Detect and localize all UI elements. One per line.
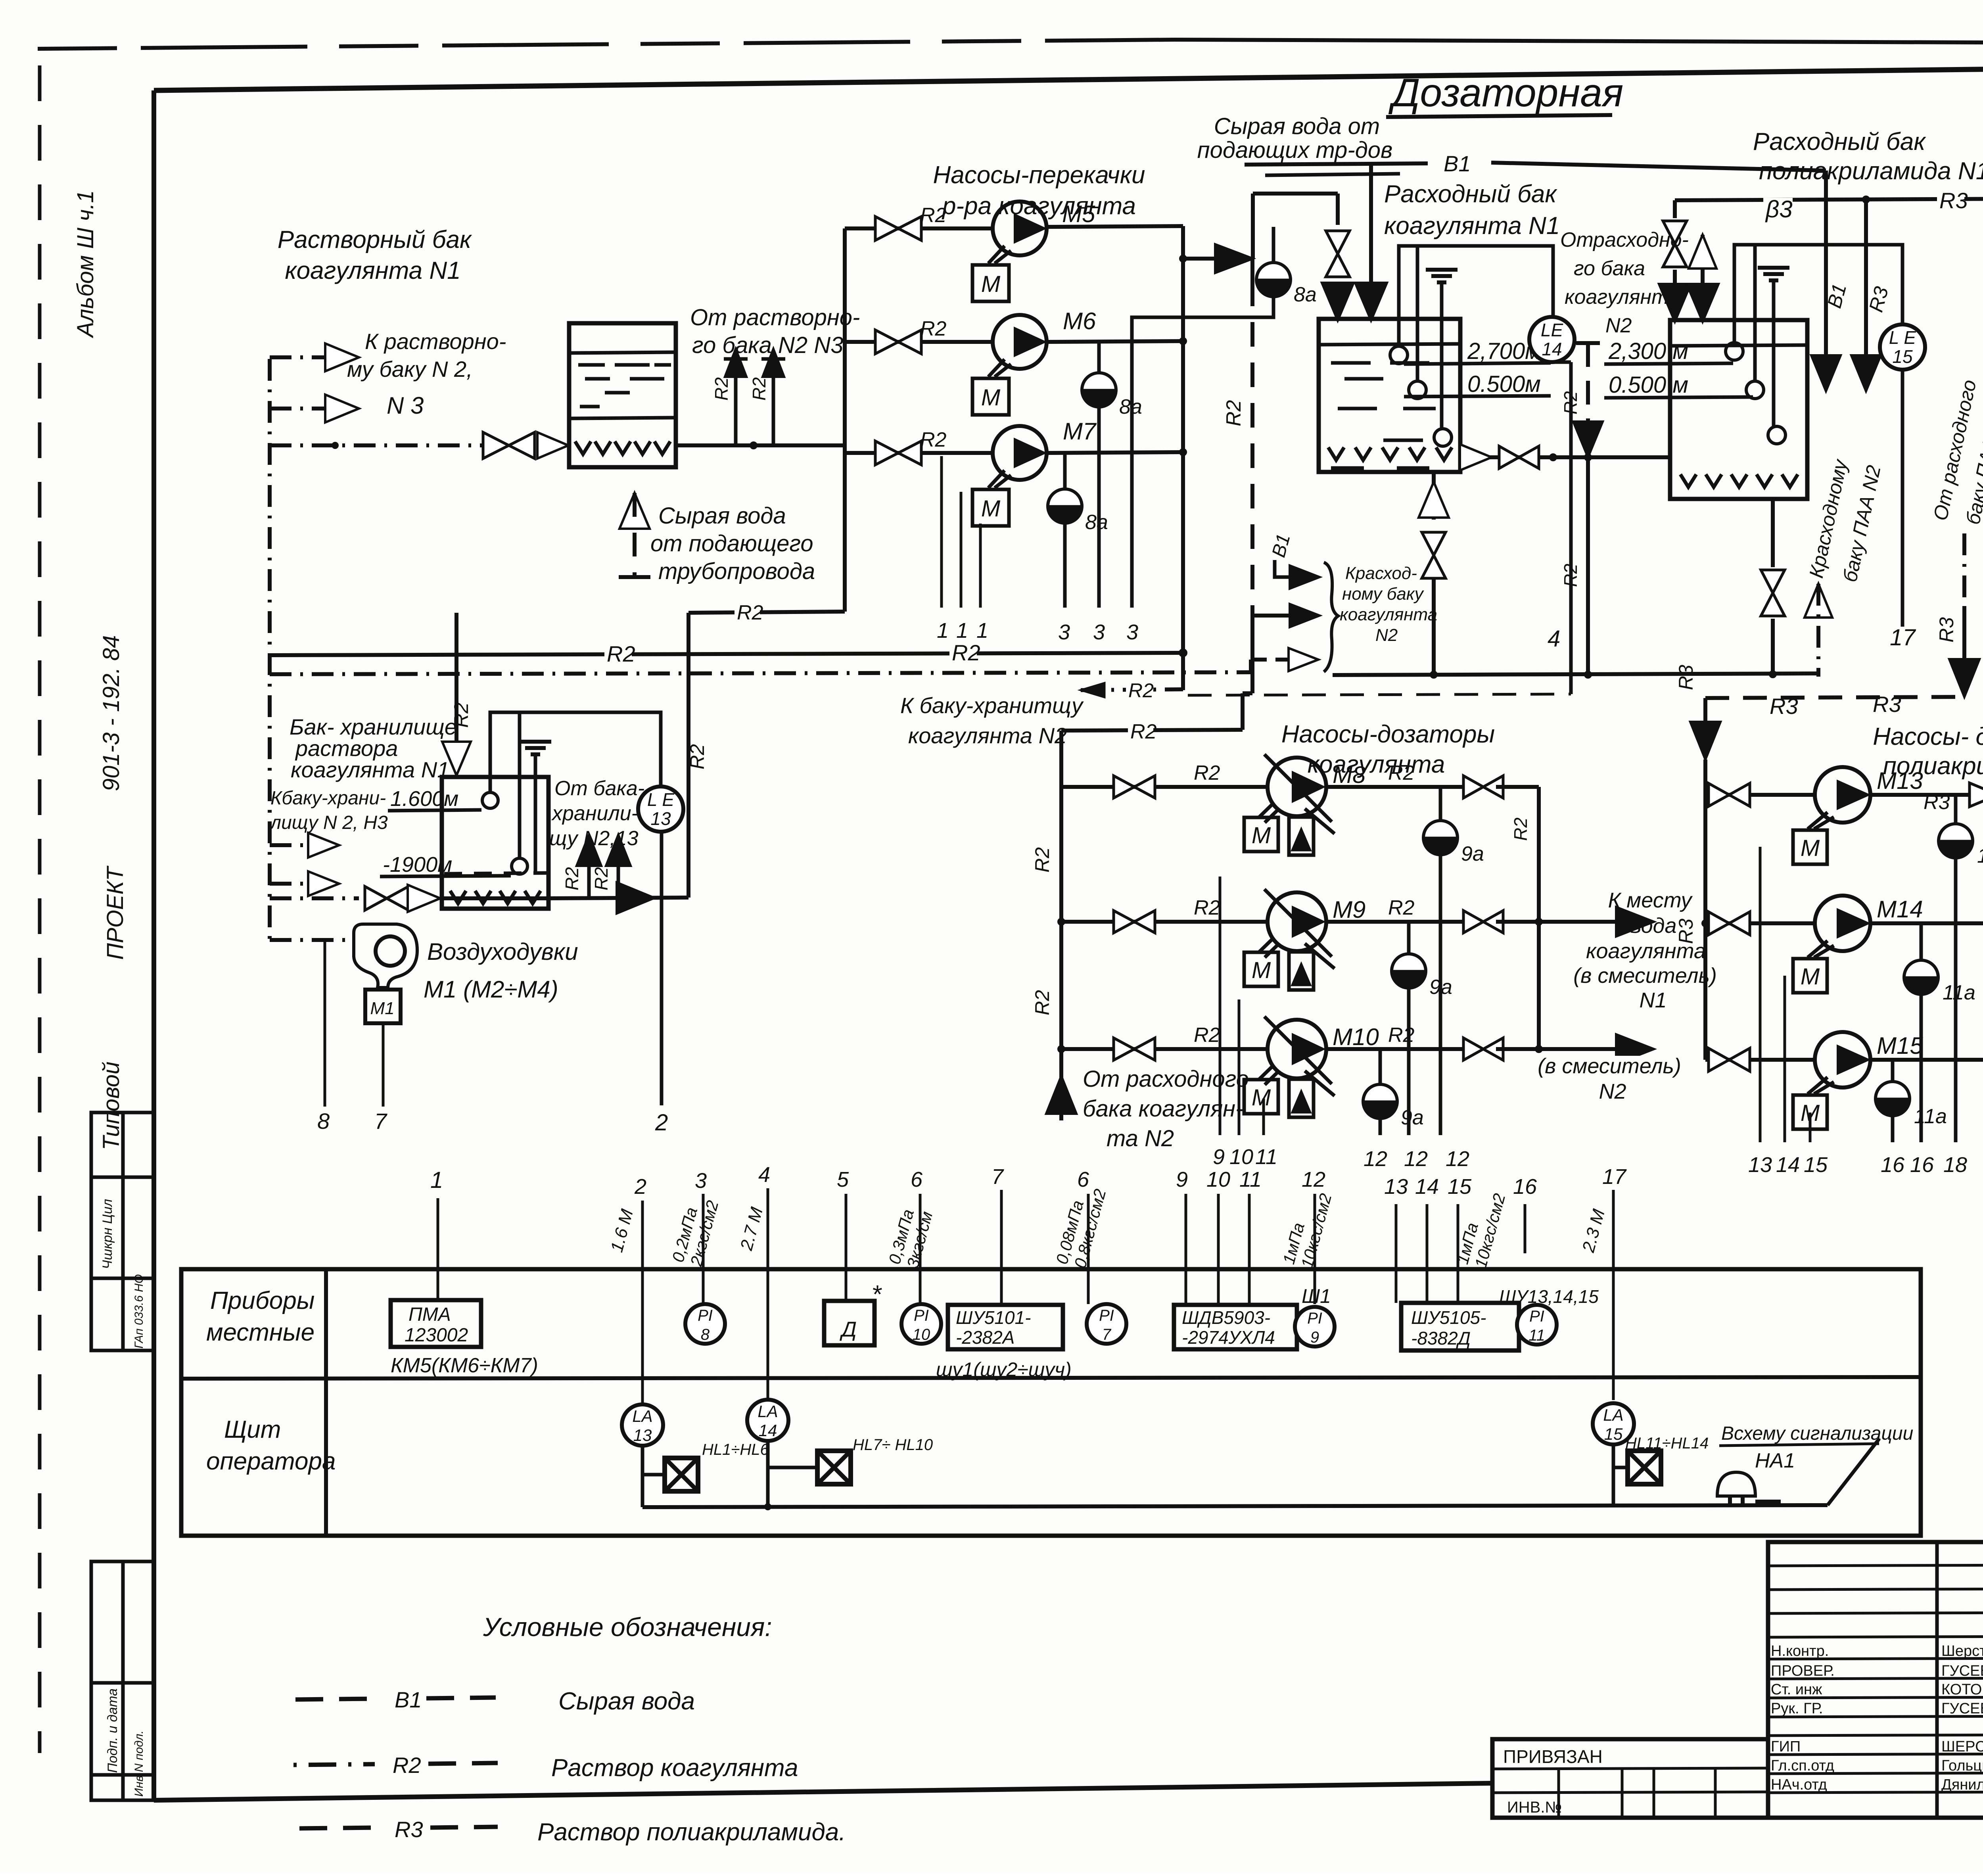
dosing pump М8 stroke adjust arrow (1305, 809, 1335, 834)
svg-text:коагулянта N1: коагулянта N1 (1384, 212, 1560, 240)
svg-text:Сырая вода от: Сырая вода от (1214, 113, 1380, 139)
underline alarm scheme (1719, 1444, 1879, 1446)
lamp box HL1-HL6 (665, 1458, 698, 1491)
svg-text:11: 11 (1255, 1145, 1277, 1169)
legend B1 sample line right (426, 1698, 496, 1698)
wire row3 to mixer N2 arrow (1539, 1047, 1622, 1051)
left margin stamp box lower (91, 1561, 154, 1800)
open arrow into storage tank bottom line (408, 885, 440, 912)
instrument table row divider (181, 1377, 1921, 1379)
svg-text:Гл.сп.отд: Гл.сп.отд (1771, 1757, 1834, 1774)
lamp box HL7-HL10 (817, 1451, 851, 1484)
junction dot at LE14 line (1550, 454, 1557, 461)
svg-text:М6: М6 (1063, 308, 1096, 334)
tick on R2 riser 2 (761, 357, 785, 361)
valve V8 vertical on beta3 left end (1673, 200, 1677, 218)
storage tank V row (450, 891, 466, 903)
svg-text:От растворно-: От растворно- (690, 305, 860, 330)
diagonal leader to alarm text (1828, 1439, 1879, 1505)
probe wires storage to LE13 (490, 712, 661, 792)
wire outlet row М8 (1326, 785, 1471, 789)
pump М15 motor box (1793, 1095, 1827, 1129)
sensor 9a-3 (1379, 1049, 1382, 1084)
svg-text:R2: R2 (1031, 847, 1053, 873)
wire tank N1 drain to right (1460, 455, 1553, 459)
svg-text:11а: 11а (1943, 981, 1975, 1004)
arrow into tank N1 left inlet (1322, 283, 1354, 320)
svg-text:R2: R2 (591, 867, 612, 890)
wire R2 down feed between tanks (1586, 343, 1590, 434)
dosing pump М9 plunger box (1289, 952, 1314, 990)
svg-text:М14: М14 (1877, 896, 1923, 923)
wire signal bus y3800 (642, 1505, 1828, 1507)
wire suction row М14 (1705, 921, 1816, 925)
svg-text:ГУСЕВА: ГУСЕВА (1941, 1663, 1983, 1679)
label v smesitel N2 coag (1523, 1056, 1695, 1078)
dosing pump М8 motor box (1244, 817, 1278, 852)
instrument LE13 level transmitter (638, 786, 683, 832)
junction dot M6 outlet (1179, 338, 1187, 345)
svg-text:Н.контр.: Н.контр. (1771, 1643, 1829, 1659)
local instrument PI-9 (1295, 1307, 1335, 1347)
wire M6 outlet to bus (1047, 341, 1183, 342)
wire LA14 to HL box (766, 1441, 770, 1507)
svg-text:16: 16 (1881, 1153, 1905, 1177)
dosing pump М8 (1268, 758, 1326, 816)
arrow open up into tank N1 bottom (1419, 482, 1449, 518)
wire tank N2 drain to trunk (1771, 619, 1775, 677)
wire M7 outlet to bus (1047, 452, 1183, 453)
svg-text:R2: R2 (1560, 391, 1581, 414)
svg-text:та N2: та N2 (1107, 1126, 1174, 1151)
valve V4 vertical above tank N1 (1326, 231, 1350, 254)
leaders 13 14 15 wires to ShU5105 box (1395, 1204, 1398, 1303)
svg-text:Гольцман: Гольцман (1941, 1757, 1983, 1774)
dosing pump М10 plunger box (1289, 1079, 1314, 1117)
svg-text:10: 10 (1206, 1168, 1230, 1191)
net label R2 L1 a (604, 643, 632, 667)
svg-text:8а: 8а (1085, 511, 1108, 534)
leader 5 wire to D box (845, 1194, 848, 1301)
svg-text:-1900м: -1900м (383, 853, 452, 877)
wire riser x3158 dashed section (1250, 282, 1254, 611)
title underline (1386, 115, 1612, 117)
name table column divider 1 (1935, 1542, 1939, 1818)
svg-text:От расходного: От расходного (1083, 1066, 1249, 1092)
local instrument box ShU5105-8382D (1401, 1303, 1519, 1350)
wire outlet row М9 (1326, 920, 1471, 924)
wire stub arrow to storage N3 (270, 882, 315, 886)
local instrument box ShDV5903-2974UHL4 (1174, 1305, 1297, 1349)
wire B1 stub elbow (1275, 560, 1298, 577)
open arrow up to PAA tank N2 (1805, 584, 1832, 618)
svg-text:13: 13 (1748, 1153, 1772, 1177)
svg-text:M: M (1801, 964, 1820, 990)
R2 tap arrow 1 under Ot baka label (587, 855, 591, 898)
svg-text:R2: R2 (1128, 679, 1154, 702)
wire riser drop to manifold feed level (1241, 693, 1245, 730)
svg-text:К баку-хранитщу: К баку-хранитщу (900, 693, 1084, 718)
junction dot drain/feed (1584, 454, 1592, 461)
wire 11a-3 stem (1891, 1116, 1895, 1142)
svg-text:Сырая вода: Сырая вода (558, 1688, 695, 1715)
wire coag dosing manifold vertical x2676 (1059, 731, 1063, 1076)
junction dot M7 outlet (1179, 449, 1187, 456)
svg-text:R2: R2 (1130, 720, 1157, 743)
svg-text:Дянилов: Дянилов (1941, 1776, 1983, 1793)
svg-text:R3: R3 (1924, 791, 1950, 814)
open arrow to storage N3 (308, 871, 339, 896)
wire suction manifold vertical x2130 (843, 228, 847, 612)
blower M1 scroll casing (354, 924, 417, 988)
valve on suction row М8 (1114, 776, 1134, 798)
svg-text:5: 5 (837, 1168, 849, 1191)
tee on riser to brace arrow2 (1252, 614, 1296, 618)
svg-text:2,300 м: 2,300 м (1608, 338, 1688, 364)
svg-text:7: 7 (991, 1165, 1004, 1189)
pump M6 motor box (972, 378, 1009, 415)
valve outlet row М10 (1463, 1038, 1483, 1060)
wire outlet to bus М8 (1496, 785, 1539, 789)
svg-text:12: 12 (1302, 1168, 1325, 1191)
sensor 8a-2 level device (1097, 341, 1101, 373)
svg-text:M: M (1252, 1085, 1271, 1111)
arrow open into dissolve tank (537, 432, 568, 458)
svg-text:Подп. и дата: Подп. и дата (105, 1688, 120, 1773)
pump M7 (993, 426, 1047, 480)
leader lines 9 10 11 from M8-M10 motors (1219, 877, 1222, 1135)
svg-text:Щит: Щит (224, 1416, 281, 1443)
svg-text:N1: N1 (1639, 988, 1667, 1012)
wire dash-dot trunk L1b (270, 672, 1251, 674)
dosing pump М9 motor box (1244, 952, 1278, 986)
svg-text:9: 9 (1176, 1168, 1188, 1191)
svg-text:15: 15 (1448, 1175, 1472, 1199)
dissolve tank inner line (569, 418, 676, 418)
svg-text:R2: R2 (920, 317, 947, 340)
svg-text:R2: R2 (1194, 1024, 1220, 1047)
svg-text:2: 2 (634, 1175, 646, 1199)
float sensor circle 1 tank N1 (1390, 346, 1408, 364)
wire M7 suction row (845, 451, 993, 455)
svg-text:В1: В1 (395, 1687, 422, 1712)
svg-text:К растворно-: К растворно- (365, 329, 506, 354)
instrument LA15 alarm lamp circle (1593, 1403, 1634, 1444)
svg-text:ШЕРСТЯКОВА: ШЕРСТЯКОВА (1941, 1738, 1983, 1755)
sensor 11a-3 (1891, 1060, 1895, 1082)
wire from dissolve tank right at y1123 junction (750, 442, 757, 449)
wire M5 outlet to bus1 (1047, 226, 1183, 227)
probe wire tank N2 to LE15 (1734, 245, 1902, 343)
svg-text:M: M (981, 496, 1001, 522)
svg-text:R2: R2 (952, 640, 980, 665)
name table box (1768, 1542, 1983, 1818)
valve outlet row М9 (1463, 911, 1483, 933)
svg-text:коагулянта N2: коагулянта N2 (908, 723, 1067, 748)
svg-text:К месту: К месту (1608, 888, 1693, 912)
svg-text:10: 10 (1229, 1145, 1253, 1169)
wire riser elbow top horizontal (1253, 192, 1338, 196)
probe line ground into tank N2 (1772, 280, 1776, 426)
svg-text:LE: LE (1541, 320, 1564, 340)
level underline -1900 (380, 876, 511, 877)
svg-text:R3: R3 (1675, 665, 1697, 690)
svg-text:L E: L E (1889, 327, 1917, 348)
valve V2 on M6 suction (875, 330, 898, 354)
svg-text:R3: R3 (1770, 694, 1798, 719)
svg-text:Типовой: Типовой (98, 1062, 124, 1150)
svg-text:R2: R2 (1510, 817, 1531, 841)
wire riser elbow up x3159 (1251, 194, 1255, 259)
svg-text:17: 17 (1602, 1165, 1627, 1189)
svg-text:11: 11 (1528, 1327, 1545, 1344)
svg-text:(в смеситель): (в смеситель) (1538, 1054, 1681, 1078)
net label B1 on trunk (1441, 153, 1469, 176)
svg-text:14: 14 (1776, 1153, 1800, 1177)
svg-text:лищу N 2, Н3: лищу N 2, Н3 (269, 812, 388, 833)
dissolve tank N1 body (569, 323, 676, 467)
svg-text:-2382А: -2382А (956, 1327, 1015, 1348)
wire valve V8 down to arrow into tank N2 (1673, 270, 1677, 298)
svg-text:10: 10 (913, 1326, 930, 1343)
wire dashed signal line y1753 (1188, 694, 1571, 695)
arrow filled to consumption tank N2 brace top (1290, 566, 1319, 589)
junction dot bus at arrow row (1179, 255, 1187, 262)
local instrument box ShU5101-2382A (948, 1305, 1063, 1349)
local instrument PI-8 pressure gauge (685, 1304, 725, 1344)
wire R2 stub to storage tank N2 (1081, 689, 1183, 690)
svg-text:N2: N2 (1599, 1080, 1626, 1103)
blower M1 motor box (365, 990, 401, 1023)
blower M1 impeller circle (376, 936, 405, 966)
arrow filled to consumption tank N2 brace mid (1290, 604, 1319, 627)
wire row2 to mixer N1 arrow (1539, 920, 1622, 924)
open arrow up vent tank N2 (1689, 235, 1716, 269)
svg-text:Приборы: Приборы (210, 1287, 315, 1314)
tank consumption coagulant N1 body (1319, 319, 1460, 472)
wire outlet bus vertical x2983 (1181, 226, 1185, 690)
wire dash-dot to blower (270, 938, 354, 942)
svg-text:коагулянта: коагулянта (1340, 605, 1437, 624)
local instrument PI-10 (901, 1304, 941, 1344)
arrowhead left on storage N2 stub (1081, 683, 1105, 697)
leader 17 wire to LA15 (1612, 1190, 1615, 1400)
level underline 2.700 (1404, 363, 1551, 364)
svg-text:1: 1 (937, 619, 949, 643)
svg-text:R2: R2 (920, 428, 947, 451)
sensor 8a-1 level device (1272, 227, 1275, 263)
drawing frame top border (154, 63, 1983, 90)
wire outlet to bus М9 (1496, 920, 1539, 924)
leader 3 wire to PI8 (702, 1194, 705, 1304)
svg-text:Кбаку-храни-: Кбаку-храни- (270, 788, 386, 809)
svg-text:7: 7 (374, 1109, 387, 1134)
valve V5 with open arrow pair on feed line (483, 432, 509, 458)
arrow down on PAA manifold feed (1690, 722, 1720, 760)
svg-text:ГИП: ГИП (1771, 1738, 1801, 1755)
svg-text:11: 11 (1239, 1168, 1262, 1191)
drawing frame bottom border (154, 1783, 1494, 1800)
svg-text:LA: LA (632, 1407, 652, 1425)
wire tank N2 drain down (1771, 499, 1775, 567)
arrow R3 down at tank N2 (1851, 355, 1881, 391)
svg-text:М8: М8 (1333, 762, 1366, 788)
svg-text:LA: LA (758, 1402, 778, 1421)
wire B1 trunk drop at x3457 (1369, 164, 1373, 278)
R2 tap arrow 2 (617, 855, 620, 898)
open arrow to consumption tank N2 brace low (1289, 648, 1318, 671)
svg-text:PI: PI (1307, 1310, 1322, 1327)
svg-text:R3: R3 (395, 1817, 423, 1842)
svg-text:β3: β3 (1765, 196, 1793, 223)
junction dissolve feed (332, 442, 338, 449)
svg-text:16: 16 (1910, 1153, 1934, 1177)
pump М14 (1815, 896, 1870, 951)
wire drain continues to junction x3916 (1553, 455, 1671, 459)
open arrow down into storage tank (442, 742, 471, 775)
svg-text:1.600м: 1.600м (390, 787, 458, 811)
dosing pump М9 stroke adjust arrow (1305, 944, 1335, 969)
wire riser jog left (1243, 691, 1252, 695)
svg-text:Ш1: Ш1 (1302, 1285, 1331, 1307)
wire storage line right to riser with R2 taps (548, 898, 688, 898)
svg-text:R3: R3 (1935, 617, 1958, 643)
svg-text:му баку N 2,: му баку N 2, (347, 357, 473, 382)
svg-text:R2: R2 (1194, 762, 1220, 785)
svg-text:15: 15 (1804, 1153, 1828, 1177)
legend R2 sample line right (428, 1763, 498, 1764)
svg-text:шу1(шу2÷шуч): шу1(шу2÷шуч) (936, 1358, 1072, 1381)
horn HA1 base dash (1755, 1500, 1781, 1504)
svg-text:R2: R2 (920, 204, 947, 227)
svg-text:R2: R2 (686, 744, 708, 769)
level underline 0.500 tank N2 (1604, 397, 1753, 398)
storage tank dashed level line (444, 873, 547, 874)
svg-text:3: 3 (1058, 620, 1070, 644)
wire left header vertical x680 dash-dot (268, 359, 272, 940)
svg-text:6: 6 (911, 1168, 923, 1191)
net label R2 on storage N2 stub (1126, 681, 1151, 702)
svg-text:HL1÷HL6: HL1÷HL6 (702, 1441, 769, 1458)
leader 1 wire (437, 1198, 439, 1300)
privyazan grid lines (1492, 1768, 1768, 1769)
svg-text:ШУ13,14,15: ШУ13,14,15 (1499, 1286, 1599, 1307)
sensor 9a-2 (1407, 922, 1411, 954)
tank N1 top band (1319, 344, 1460, 345)
wire stub to rastvorny bak N2 arrow1 (270, 355, 326, 359)
svg-text:R2: R2 (1388, 896, 1415, 919)
wire 9a-2 stem down (1407, 988, 1411, 1135)
svg-text:0.500 м: 0.500 м (1609, 372, 1688, 398)
R2 riser arrow small 2 (772, 359, 775, 445)
svg-text:ШУ5101-: ШУ5101- (956, 1307, 1031, 1328)
svg-text:3: 3 (695, 1169, 707, 1193)
svg-text:р-ра коагулянта: р-ра коагулянта (942, 192, 1136, 220)
svg-text:12: 12 (1404, 1147, 1428, 1171)
alarm horn HA1 symbol (1717, 1472, 1755, 1496)
check valve M13 outlet (1970, 783, 1983, 807)
svg-text:ШУ5105-: ШУ5105- (1411, 1307, 1486, 1328)
svg-text:7: 7 (1102, 1326, 1112, 1343)
instrument table column divider (324, 1269, 328, 1536)
svg-text:Инв.N подл.: Инв.N подл. (132, 1730, 146, 1797)
open arrow to storage N2 (308, 833, 339, 857)
svg-text:ГАп 033.6 НО: ГАп 033.6 НО (132, 1274, 146, 1348)
probe wire 2 up (1416, 246, 1419, 381)
level underline 2.300 tank N2 (1604, 363, 1733, 364)
wire L3 corner down x4300 to PAA manifold (1703, 698, 1707, 730)
wire R2 manifold feed y1840 (1061, 730, 1243, 731)
svg-text:-8382Д: -8382Д (1411, 1328, 1471, 1348)
svg-text:Альбом Ш ч.1: Альбом Ш ч.1 (73, 190, 98, 338)
pump M6 (993, 315, 1047, 369)
svg-text:Рук. ГР.: Рук. ГР. (1771, 1700, 1823, 1717)
svg-text:коагулянта: коагулянта (1586, 939, 1706, 963)
wire storage main line y2265 (270, 896, 359, 900)
wire LE15 signal down to leader 17 (1901, 370, 1904, 627)
junction dot beta3/R3 at x4705 (1862, 196, 1870, 203)
dosing pump М10 (1268, 1020, 1326, 1078)
dosing pump М10 stroke adjust arrow (1305, 1071, 1335, 1096)
wire suction row М10 (1061, 1047, 1268, 1051)
wire second inlet tank N2 from up-arrow (1701, 235, 1705, 298)
svg-text:Расходный бак: Расходный бак (1753, 128, 1926, 155)
pump M5 motor box (972, 265, 1009, 301)
svg-text:КМ5(КМ6÷КМ7): КМ5(КМ6÷КМ7) (391, 1354, 538, 1377)
wire 9a-1 stem down (1439, 855, 1442, 1135)
wire 9a-3 stem down (1379, 1118, 1382, 1135)
svg-text:Сырая вода: Сырая вода (658, 503, 786, 529)
wire 11a-2 stem (1920, 994, 1923, 1142)
svg-text:11а: 11а (1977, 844, 1983, 867)
wire R3 drop from beta3 trunk (1864, 199, 1868, 363)
storage tank body (442, 777, 548, 909)
arrow R2 into drain line (1573, 422, 1603, 457)
svg-text:PI: PI (1529, 1308, 1544, 1325)
svg-text:коагулянта N1: коагулянта N1 (285, 257, 460, 284)
svg-text:13: 13 (633, 1426, 652, 1444)
svg-text:подающих тр-дов: подающих тр-дов (1197, 137, 1393, 163)
level underline 0.500 (1404, 396, 1551, 397)
wire under storage tank (442, 896, 548, 900)
underline raw water label (1265, 174, 1400, 175)
svg-text:M: M (1801, 835, 1820, 861)
svg-text:18: 18 (1943, 1153, 1967, 1177)
instrument LA13 alarm lamp circle (622, 1404, 663, 1446)
svg-text:местные: местные (206, 1319, 315, 1346)
svg-text:Расходный бак: Расходный бак (1384, 180, 1557, 208)
wire B1 drop to tank N2 arrow (1824, 171, 1828, 363)
float sensor 2 storage (512, 858, 527, 874)
valve V3 on M7 suction (875, 441, 898, 465)
junction dots right bus (1535, 918, 1542, 925)
local instrument PMA 123002 box (391, 1300, 481, 1347)
valve V12 storage line (365, 886, 387, 910)
left margin stamp box upper (91, 1113, 154, 1350)
svg-text:M: M (981, 385, 1001, 410)
svg-text:R2: R2 (562, 867, 582, 890)
probe line from ground into tank (1440, 282, 1444, 430)
arrow to mixer N2 coag (1616, 1034, 1654, 1064)
wire tank N1 drain to trunk (1432, 577, 1436, 677)
wire R3 vertical from PAA N2 stub to L3 arrow (1962, 533, 1966, 607)
pump М15 (1815, 1032, 1870, 1088)
wire outlet to bus М10 (1496, 1047, 1539, 1051)
svg-text:M: M (1252, 957, 1271, 983)
svg-text:В1: В1 (1444, 151, 1471, 176)
wire R2 trunk L2 solid (1333, 673, 1818, 675)
svg-text:ШДВ5903-: ШДВ5903- (1182, 1307, 1270, 1328)
